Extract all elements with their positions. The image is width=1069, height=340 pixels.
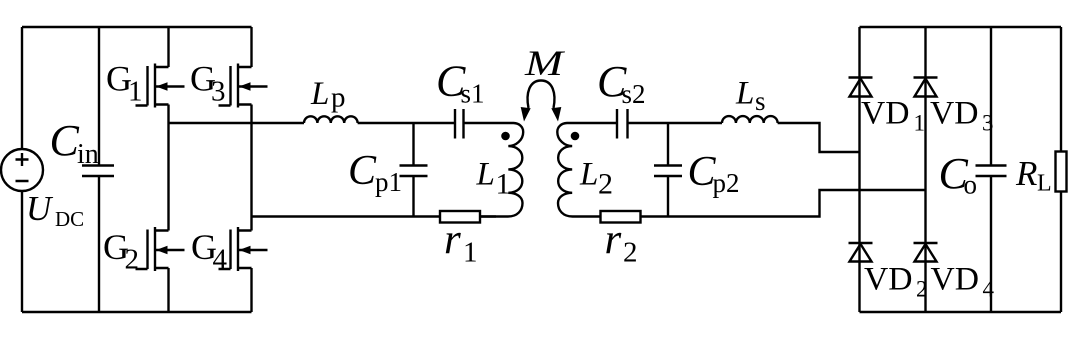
capacitor Cp1 [400,123,428,217]
svg-text:L: L [476,157,495,193]
svg-text:R: R [1015,154,1037,193]
wire r1 to L1 [480,215,496,217]
svg-text:U: U [26,189,54,228]
svg-text:p1: p1 [375,167,402,197]
wire rectifier leg B [924,27,926,312]
resistor r1 [440,211,480,223]
MOSFET G3 [219,64,268,108]
wire left rail below source [21,191,23,312]
diode VD3 [914,78,938,97]
capacitor Cs1 [455,109,464,139]
capacitor C_in [82,27,114,312]
wire leg1 drain [167,27,169,67]
svg-text:L: L [579,157,598,193]
wire Lp to Cs1 [358,122,455,124]
svg-text:r: r [605,217,622,264]
wire bottom rail inverter [22,311,252,313]
wire leg2 midpoint [250,105,252,231]
svg-text:2: 2 [916,277,928,302]
svg-text:2: 2 [623,237,638,269]
wire Cs2 to Ls [628,122,723,124]
svg-text:s2: s2 [622,79,646,109]
wire load rail below RL [1060,192,1062,313]
svg-text:L: L [310,76,329,112]
wire bottom tank secondary to rectifier [641,190,926,217]
inductor L1 primary coil [464,123,524,217]
wire bottom tank primary [252,215,441,217]
svg-text:L: L [1037,171,1052,197]
svg-text:1: 1 [463,237,478,269]
MOSFET G2 [136,227,185,271]
svg-text:4: 4 [983,277,995,302]
svg-text:s1: s1 [461,79,485,109]
svg-text:2: 2 [598,168,613,201]
mutual coupling arrow M [521,81,562,122]
diode VD2 [849,243,873,262]
svg-text:VD: VD [864,262,913,298]
MOSFET G1 [136,64,185,108]
wire left rail above source [21,27,23,149]
svg-text:p: p [331,82,346,114]
svg-text:VD: VD [930,96,979,132]
svg-text:4: 4 [213,244,228,276]
svg-text:r: r [444,217,461,264]
svg-text:in: in [77,139,99,170]
inductor L2 secondary coil [557,123,617,217]
inductor Lp [304,116,358,123]
resistor RL [1056,152,1067,192]
svg-text:1: 1 [128,76,143,108]
voltage source U_DC [1,149,43,191]
wire rectifier bottom rail [860,311,1062,313]
wire rectifier leg A [858,27,860,312]
svg-text:M: M [524,43,566,83]
dot L1 polarity [501,132,510,141]
wire leg1 midpoint [167,105,169,231]
wire inverter output to Lp [169,122,305,124]
svg-text:C: C [50,116,80,165]
svg-text:o: o [964,170,978,200]
svg-text:VD: VD [931,262,980,298]
wire Ls to rectifier top [778,123,860,152]
svg-text:1: 1 [914,111,926,136]
resistor r2 [601,211,641,223]
svg-text:C: C [348,148,377,194]
wire leg1 source [167,268,169,312]
inductor Ls [722,116,778,123]
svg-text:DC: DC [55,207,84,231]
capacitor Cp2 [654,123,682,217]
svg-text:s: s [755,86,766,116]
wire rectifier top rail [860,26,1062,28]
capacitor Co [976,27,1007,312]
dot L2 polarity [571,132,580,141]
svg-text:2: 2 [125,244,140,276]
svg-text:VD: VD [861,96,910,132]
diode VD4 [914,243,938,262]
wire load rail above RL [1060,27,1062,152]
MOSFET G4 [219,227,268,271]
diode VD1 [849,78,873,97]
svg-text:1: 1 [496,168,511,201]
svg-text:p2: p2 [713,168,740,198]
wire leg2 drain [250,27,252,67]
svg-text:L: L [735,76,754,112]
wire top rail inverter [22,26,252,28]
capacitor Cs2 [617,109,628,139]
wire leg2 source [250,268,252,312]
svg-text:3: 3 [211,76,226,108]
